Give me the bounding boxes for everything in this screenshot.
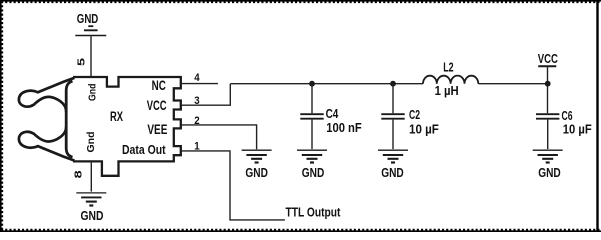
wire Data Out pin 1 to TTL output bbox=[181, 151, 285, 220]
svg-text:8: 8 bbox=[73, 170, 84, 179]
wire VCC rail bbox=[230, 83, 423, 85]
wire VCC pin 3 bbox=[181, 84, 231, 106]
ground GND bottom (pin 8) bbox=[76, 193, 106, 206]
svg-text:GND: GND bbox=[81, 208, 104, 223]
capacitor C4 bbox=[300, 84, 323, 149]
svg-text:Gnd: Gnd bbox=[87, 84, 99, 102]
ground for C4 bbox=[297, 150, 327, 162]
svg-text:TTL Output: TTL Output bbox=[286, 205, 341, 220]
svg-text:VCC: VCC bbox=[147, 98, 167, 113]
svg-text:GND: GND bbox=[381, 165, 404, 180]
svg-text:L2: L2 bbox=[443, 61, 453, 75]
svg-text:5: 5 bbox=[77, 57, 88, 66]
wire pin 8 to ground bottom bbox=[90, 163, 92, 192]
svg-text:4: 4 bbox=[194, 72, 200, 84]
fiber connector bottom latch arm bbox=[19, 126, 75, 160]
border frame left bbox=[1, 0, 3, 232]
svg-text:Gnd: Gnd bbox=[85, 132, 97, 153]
border frame top bbox=[0, 1, 601, 3]
svg-text:Data Out: Data Out bbox=[122, 142, 166, 157]
svg-text:GND: GND bbox=[302, 165, 325, 180]
fiber connector mating face bbox=[66, 81, 72, 157]
svg-text:GND: GND bbox=[77, 11, 99, 26]
capacitor C2 bbox=[381, 84, 404, 149]
border frame bottom bbox=[0, 230, 601, 232]
receiver module U1 body (RX) bbox=[73, 77, 181, 176]
ground for C2 bbox=[378, 150, 408, 162]
ground for VEE (pin 2) bbox=[242, 150, 272, 162]
junction node at C2 bbox=[390, 81, 396, 87]
svg-text:VCC: VCC bbox=[538, 51, 559, 66]
fiber connector top latch arm bbox=[19, 78, 75, 112]
svg-text:NC: NC bbox=[152, 78, 166, 93]
junction node at C4 bbox=[309, 81, 315, 87]
power VCC bbox=[538, 51, 559, 113]
junction node at VCC/C6 bbox=[545, 81, 551, 87]
svg-text:C2: C2 bbox=[409, 107, 420, 122]
capacitor C6 bbox=[536, 114, 559, 149]
svg-text:10 µF: 10 µF bbox=[563, 122, 592, 137]
svg-text:GND: GND bbox=[245, 165, 268, 180]
svg-text:1 µH: 1 µH bbox=[435, 84, 459, 98]
ground GND top (power flag above pin 5) bbox=[75, 11, 106, 36]
ground for C6 bbox=[533, 150, 563, 162]
svg-text:100 nF: 100 nF bbox=[326, 120, 362, 135]
svg-text:VEE: VEE bbox=[147, 122, 167, 137]
inductor L2 bbox=[423, 76, 478, 84]
wire NC stub (pin 4) bbox=[181, 83, 218, 85]
svg-text:10 µF: 10 µF bbox=[409, 121, 439, 136]
wire rail after inductor bbox=[478, 83, 547, 85]
wire pin5 to GND top bbox=[90, 36, 92, 76]
svg-text:RX: RX bbox=[110, 109, 123, 124]
svg-text:GND: GND bbox=[538, 165, 561, 180]
border frame right bbox=[596, 2, 598, 231]
wire VEE pin 2 to ground bbox=[181, 125, 257, 149]
